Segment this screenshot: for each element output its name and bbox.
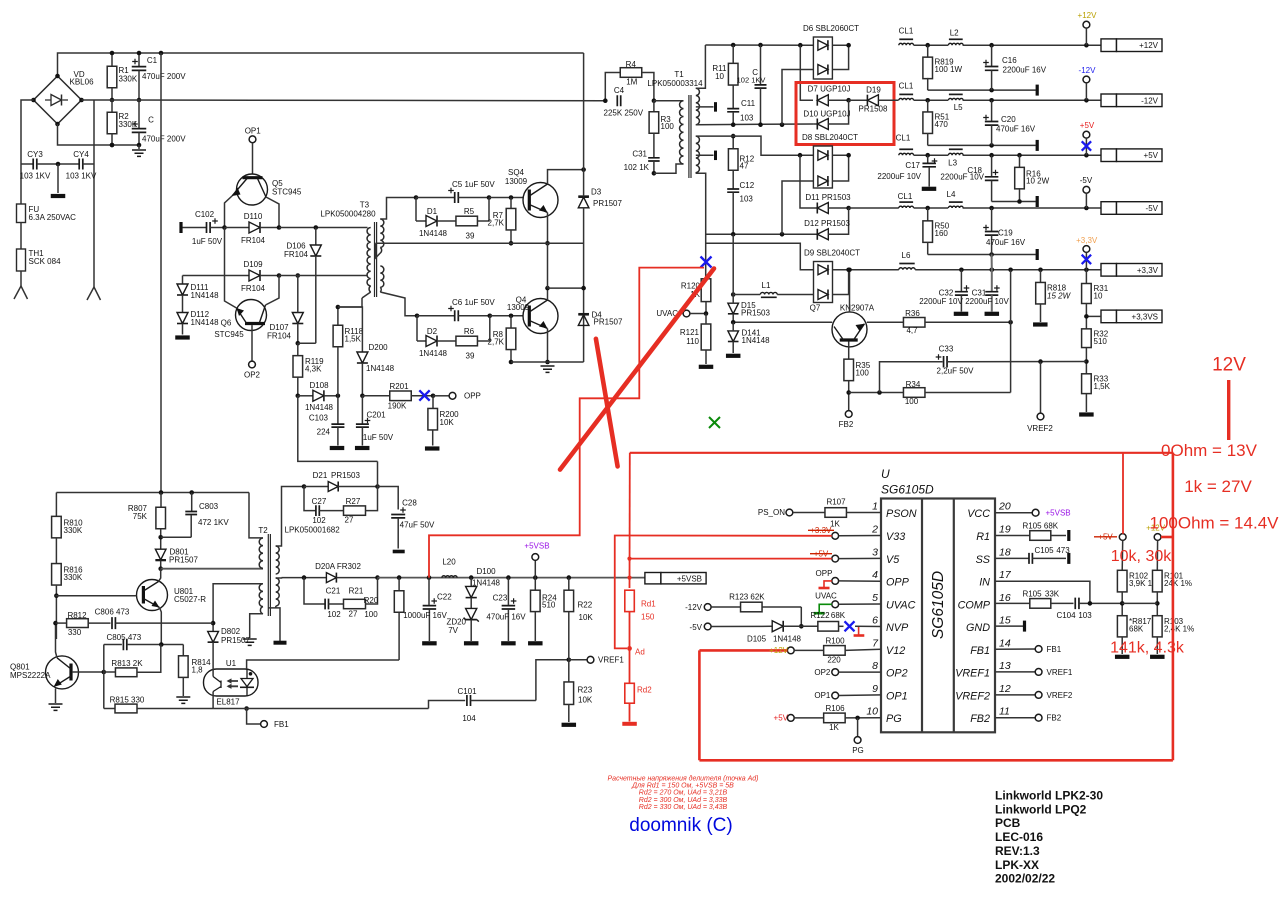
capacitor C5 1uF 50V bbox=[414, 195, 419, 200]
svg-text:Q7: Q7 bbox=[810, 304, 821, 313]
diode D12 PR1503 bbox=[817, 229, 828, 240]
svg-text:2200uF 10V: 2200uF 10V bbox=[877, 172, 921, 181]
resistor R812 330 bbox=[53, 621, 58, 626]
svg-text:100Ohm = 14.4V: 100Ohm = 14.4V bbox=[1149, 514, 1279, 533]
svg-text:C27: C27 bbox=[312, 497, 327, 506]
wire R123 drop bbox=[800, 607, 802, 626]
svg-text:+5VSB: +5VSB bbox=[1046, 509, 1071, 518]
ground bar bbox=[393, 550, 405, 554]
svg-text:Rd1: Rd1 bbox=[641, 600, 656, 609]
capacitor C32 2200uF 10V bbox=[960, 270, 962, 292]
ground bar bbox=[501, 641, 516, 645]
terminator bar bbox=[1036, 196, 1039, 207]
resistor R36 4,7 bbox=[867, 321, 904, 323]
svg-text:D21: D21 bbox=[313, 471, 328, 480]
svg-text:1N4148: 1N4148 bbox=[191, 318, 220, 327]
svg-text:13009: 13009 bbox=[505, 177, 528, 186]
svg-text:470uF 16V: 470uF 16V bbox=[986, 238, 1026, 247]
svg-text:FB2: FB2 bbox=[970, 713, 990, 725]
svg-text:SCK 084: SCK 084 bbox=[29, 257, 62, 266]
wire D7 feed riser bbox=[800, 45, 813, 100]
blue X mark bbox=[419, 390, 429, 400]
wire +5VSB rail bbox=[429, 577, 645, 579]
svg-text:100: 100 bbox=[856, 369, 870, 378]
svg-text:141k, 4.3k: 141k, 4.3k bbox=[1110, 640, 1185, 657]
terminal FB1 bbox=[247, 709, 261, 725]
svg-text:39: 39 bbox=[466, 232, 475, 241]
ground bar bbox=[1079, 412, 1094, 416]
svg-text:9: 9 bbox=[872, 683, 878, 695]
wire T2 aux top to D21 bbox=[276, 487, 304, 547]
svg-text:33K: 33K bbox=[1045, 590, 1060, 599]
svg-text:150: 150 bbox=[641, 613, 655, 622]
inductor L1 bbox=[731, 292, 736, 297]
terminator bar bbox=[1067, 530, 1070, 541]
ground bbox=[176, 697, 190, 703]
wire top secondary rail y45 bbox=[705, 44, 813, 46]
svg-text:1N4148: 1N4148 bbox=[305, 403, 334, 412]
wire D6 lower feed riser bbox=[782, 70, 813, 125]
terminal +5VSB standby bbox=[534, 560, 536, 577]
diode D801 PR1507 bbox=[155, 549, 166, 560]
terminal +5V with blue X bbox=[1083, 131, 1090, 138]
svg-text:PCB: PCB bbox=[995, 816, 1021, 830]
svg-text:330: 330 bbox=[68, 628, 82, 637]
svg-text:+5V: +5V bbox=[774, 714, 789, 723]
svg-text:C4: C4 bbox=[614, 86, 625, 95]
terminal OP1 bbox=[249, 136, 256, 143]
svg-text:68K: 68K bbox=[1129, 625, 1144, 634]
svg-text:LPK-XX: LPK-XX bbox=[995, 858, 1039, 872]
wire to T1 primary bbox=[654, 100, 684, 102]
svg-text:C16: C16 bbox=[1002, 56, 1017, 65]
svg-text:C22: C22 bbox=[437, 593, 452, 602]
wire C31 to T1 primary bottom bbox=[654, 164, 684, 173]
capacitor C28 47uF 50V bbox=[391, 515, 405, 518]
resistor R2 330K bbox=[111, 100, 113, 113]
diode D108 1N4148 bbox=[298, 395, 313, 397]
ground bar bbox=[562, 723, 577, 727]
svg-text:R21: R21 bbox=[349, 587, 364, 596]
svg-text:VREF2: VREF2 bbox=[1047, 691, 1073, 700]
wire T1 sec2 top rail y136 bbox=[696, 136, 814, 155]
svg-text:Q6: Q6 bbox=[221, 319, 232, 328]
ground bbox=[138, 145, 140, 149]
svg-text:FR104: FR104 bbox=[241, 284, 266, 293]
capacitor C20 470uF 16V bbox=[991, 100, 993, 121]
svg-text:R121: R121 bbox=[680, 328, 700, 337]
svg-text:100: 100 bbox=[661, 122, 675, 131]
terminal -5V bbox=[1083, 186, 1090, 193]
capacitor C31 2200uF 10V bbox=[991, 270, 993, 292]
wire C12 to D15 riser bbox=[732, 234, 734, 294]
wire Q4 collector bbox=[547, 288, 549, 300]
wire opto LED anode to R20 bbox=[247, 660, 400, 669]
capacitor C17 2200uF 10V bbox=[927, 155, 929, 163]
wire D11 feed riser bbox=[800, 155, 817, 208]
wire T2 aux winding B top bbox=[213, 584, 263, 632]
resistor R16 10 2W bbox=[1019, 155, 1021, 168]
svg-text:C101: C101 bbox=[457, 687, 477, 696]
wire T2 aux2 bottom ground bbox=[269, 608, 281, 641]
wire U801 emitter bbox=[160, 608, 162, 645]
svg-text:PS_ON: PS_ON bbox=[758, 508, 785, 517]
svg-text:510: 510 bbox=[542, 601, 556, 610]
svg-text:PG: PG bbox=[886, 713, 902, 725]
wire bus jog bbox=[429, 701, 466, 709]
wire Q4 emitter bbox=[547, 329, 549, 363]
svg-text:U1: U1 bbox=[226, 659, 237, 668]
svg-text:V5: V5 bbox=[886, 554, 900, 566]
wire bbox=[20, 223, 22, 250]
connector +12V bbox=[1101, 39, 1117, 52]
svg-text:1uF 50V: 1uF 50V bbox=[363, 433, 394, 442]
svg-text:D109: D109 bbox=[243, 260, 263, 269]
svg-text:R20: R20 bbox=[364, 596, 379, 605]
svg-text:D802: D802 bbox=[221, 627, 241, 636]
red branch to +5V divider bbox=[1122, 453, 1124, 534]
svg-text:R812: R812 bbox=[67, 611, 87, 620]
resistor R6 39 bbox=[456, 336, 478, 346]
terminal VREF1 bbox=[567, 658, 572, 663]
svg-text:10K: 10K bbox=[440, 418, 455, 427]
transistor Q4 13009 bbox=[523, 299, 558, 334]
svg-text:SS: SS bbox=[976, 554, 991, 566]
ground bar bbox=[985, 312, 1000, 316]
svg-text:17: 17 bbox=[999, 569, 1012, 581]
svg-text:C5 1uF 50V: C5 1uF 50V bbox=[452, 180, 495, 189]
diode D7 UGP10J bbox=[817, 95, 828, 106]
svg-text:2,7K: 2,7K bbox=[488, 219, 505, 228]
ground bar bbox=[355, 446, 370, 450]
terminal V5 pin3 bbox=[832, 555, 839, 562]
wire COMP node to R101 col bbox=[1122, 602, 1157, 604]
bridge rectifier VD KBL06 bbox=[34, 76, 82, 124]
svg-text:190K: 190K bbox=[388, 402, 407, 411]
svg-text:1N4148: 1N4148 bbox=[419, 349, 448, 358]
terminal VREF2 bbox=[1040, 362, 1042, 413]
rectifier D9 SBL2040CT bbox=[814, 262, 833, 303]
svg-text:1N4148: 1N4148 bbox=[742, 336, 771, 345]
ground bar bbox=[330, 446, 345, 450]
wire D801 to T2 mid bbox=[161, 568, 263, 570]
capacitor C103 224 bbox=[337, 396, 339, 424]
svg-text:R105: R105 bbox=[1022, 590, 1042, 599]
fuse FU 6.3A 250VAC bbox=[17, 204, 26, 223]
diode D109 FR104 bbox=[183, 275, 250, 277]
svg-text:470uF 16V: 470uF 16V bbox=[996, 125, 1036, 134]
svg-text:Для Rd1 = 150 Ом, +5VSB = 5В: Для Rd1 = 150 Ом, +5VSB = 5В bbox=[631, 783, 734, 790]
resistor R118 1,5K bbox=[337, 307, 339, 325]
svg-text:L20: L20 bbox=[442, 558, 456, 567]
svg-text:R5: R5 bbox=[464, 207, 475, 216]
svg-text:PR1507: PR1507 bbox=[594, 318, 623, 327]
capacitor C23 470uF 16V bbox=[507, 578, 509, 605]
wire D9 outputs merge bbox=[833, 270, 849, 295]
wire Q801 base bbox=[72, 671, 104, 673]
svg-text:16: 16 bbox=[999, 592, 1011, 604]
svg-text:4: 4 bbox=[872, 569, 878, 581]
svg-text:L3: L3 bbox=[948, 159, 957, 168]
red mod wire path A (+5VSB tap to 3.3V sense) bbox=[429, 268, 704, 578]
capacitor C16 2200uF 16V bbox=[991, 45, 993, 66]
resistor R21 27 bbox=[329, 603, 344, 605]
wire HV+ drop to standby bbox=[160, 53, 162, 493]
wire Q7 emitter to 3.3 rail bbox=[849, 270, 851, 312]
svg-text:13009: 13009 bbox=[507, 303, 530, 312]
red stub NVP bbox=[858, 627, 860, 635]
resistor R32 510 bbox=[1082, 329, 1092, 348]
svg-text:D108: D108 bbox=[309, 381, 329, 390]
svg-text:Linkworld LPK2-30: Linkworld LPK2-30 bbox=[995, 789, 1103, 803]
node Ad bbox=[627, 646, 632, 651]
svg-text:1K: 1K bbox=[830, 520, 840, 529]
svg-text:R36: R36 bbox=[905, 309, 920, 318]
red crossout X bbox=[596, 339, 618, 467]
svg-text:103 1KV: 103 1KV bbox=[66, 172, 97, 181]
svg-text:D10 UGP10J: D10 UGP10J bbox=[803, 110, 850, 119]
capacitor C102 1uF 50V bbox=[179, 222, 182, 233]
capacitor C22 1000uF 16V bbox=[428, 578, 430, 605]
wire feedback bus bbox=[244, 706, 249, 711]
capacitor C806 473 bbox=[112, 617, 115, 629]
wire IN pin17 bbox=[995, 581, 1090, 603]
svg-text:62K: 62K bbox=[750, 593, 765, 602]
svg-text:330K: 330K bbox=[119, 75, 138, 84]
resistor R7 2,7K bbox=[510, 198, 512, 209]
svg-text:Расчетные напряжения делителя: Расчетные напряжения делителя (точка Ad) bbox=[608, 775, 759, 783]
svg-text:CL1: CL1 bbox=[896, 134, 911, 143]
svg-text:D200: D200 bbox=[369, 343, 389, 352]
svg-text:R23: R23 bbox=[578, 686, 593, 695]
wire emitter rail upper bbox=[376, 242, 584, 244]
terminator bar bbox=[1067, 553, 1070, 564]
svg-text:L6: L6 bbox=[902, 251, 911, 260]
wire to SQ4 base bbox=[489, 197, 523, 199]
svg-text:1M: 1M bbox=[626, 78, 637, 87]
svg-text:103 1KV: 103 1KV bbox=[20, 172, 51, 181]
svg-text:1N4148: 1N4148 bbox=[419, 229, 448, 238]
diode D19 PR1508 bbox=[849, 99, 868, 101]
ground bar bbox=[175, 335, 190, 339]
capacitor C12 103 bbox=[727, 189, 739, 192]
svg-text:-5V: -5V bbox=[1080, 176, 1093, 185]
IC U SG6105D block bbox=[881, 499, 995, 733]
wire T3 primary return bbox=[338, 298, 362, 307]
wire standby out rail bbox=[378, 577, 430, 579]
svg-text:1k = 27V: 1k = 27V bbox=[1184, 477, 1252, 496]
svg-text:Rd2 = 330 Ом, UAd = 3,43В: Rd2 = 330 Ом, UAd = 3,43В bbox=[639, 804, 728, 811]
wire R36 node riser bbox=[1010, 270, 1012, 323]
wire T3 primary bottom jog bbox=[362, 292, 371, 298]
resistor R31 10 bbox=[1082, 284, 1092, 304]
svg-text:470uF 200V: 470uF 200V bbox=[142, 72, 186, 81]
svg-text:COMP: COMP bbox=[958, 600, 991, 612]
svg-text:6.3A 250VAC: 6.3A 250VAC bbox=[29, 213, 77, 222]
svg-text:2200uF 10V: 2200uF 10V bbox=[965, 297, 1009, 306]
svg-text:FB1: FB1 bbox=[274, 720, 289, 729]
wire drive lower to T3 bbox=[279, 275, 368, 277]
ground bbox=[541, 366, 555, 372]
svg-text:C105: C105 bbox=[1034, 546, 1054, 555]
svg-text:13: 13 bbox=[999, 660, 1011, 672]
svg-text:L1: L1 bbox=[762, 281, 771, 290]
svg-text:GND: GND bbox=[966, 622, 990, 634]
svg-text:24K 1%: 24K 1% bbox=[1164, 579, 1192, 588]
svg-text:C12: C12 bbox=[740, 181, 755, 190]
resistor R815 330 bbox=[104, 708, 115, 710]
red stub OPP bbox=[824, 581, 832, 587]
capacitor C1 470uF 200V bbox=[138, 53, 140, 67]
svg-text:+5VSB: +5VSB bbox=[677, 574, 702, 583]
svg-text:+5V: +5V bbox=[1080, 121, 1095, 130]
svg-text:110: 110 bbox=[686, 337, 699, 346]
wire HV drop through D3 bbox=[583, 53, 585, 196]
resistor R122 68K bbox=[801, 625, 818, 627]
ground bar bbox=[922, 187, 937, 191]
svg-text:OP2: OP2 bbox=[886, 668, 908, 680]
node D106-D107 bbox=[296, 341, 301, 346]
svg-text:VREF2: VREF2 bbox=[1027, 424, 1053, 433]
svg-text:472 1KV: 472 1KV bbox=[198, 518, 229, 527]
svg-text:KN2907A: KN2907A bbox=[840, 304, 875, 313]
svg-text:2200uF 10V: 2200uF 10V bbox=[940, 173, 984, 182]
svg-text:R1: R1 bbox=[976, 531, 990, 543]
svg-text:T2: T2 bbox=[258, 526, 268, 535]
svg-text:-12V: -12V bbox=[685, 603, 703, 612]
svg-text:T3: T3 bbox=[360, 201, 370, 210]
capacitor C4 225K 250V bbox=[617, 95, 620, 106]
svg-text:5: 5 bbox=[872, 592, 878, 604]
svg-text:NVP: NVP bbox=[886, 622, 909, 634]
node CY3-CY4 midpoint / chassis ground bbox=[56, 162, 61, 167]
resistor R105 68K bbox=[995, 535, 1030, 537]
wire R819 return bbox=[928, 89, 1036, 91]
terminator bar bbox=[1036, 85, 1039, 96]
diode D11 PR1503 bbox=[817, 203, 828, 214]
svg-text:U: U bbox=[881, 467, 890, 481]
terminal PG bbox=[857, 718, 859, 737]
wire D6 outputs merge bbox=[832, 45, 848, 69]
resistor R33 1,5K bbox=[1082, 374, 1092, 394]
capacitor C6 1uF 50V bbox=[415, 313, 420, 318]
resistor R121 110 bbox=[701, 324, 711, 350]
terminal FB2 pin11 bbox=[995, 717, 1035, 719]
svg-text:IN: IN bbox=[979, 577, 990, 589]
svg-text:47uF 50V: 47uF 50V bbox=[400, 521, 435, 530]
svg-text:10K: 10K bbox=[578, 696, 593, 705]
svg-text:1N4148: 1N4148 bbox=[366, 364, 395, 373]
transistor U801 C5027-R bbox=[137, 580, 168, 611]
svg-text:102 1K: 102 1K bbox=[624, 163, 650, 172]
ground bar bbox=[726, 354, 741, 358]
capacitor C27 102 bbox=[304, 487, 316, 511]
ground bar bbox=[464, 641, 479, 645]
wire AC line 2 bbox=[93, 100, 95, 287]
resistor R23 10K bbox=[568, 660, 570, 682]
svg-text:PR1507: PR1507 bbox=[221, 636, 250, 645]
svg-text:D19: D19 bbox=[866, 86, 881, 95]
capacitor C21 102 bbox=[304, 578, 325, 604]
svg-text:PR1507: PR1507 bbox=[169, 556, 198, 565]
svg-text:D6 SBL2060CT: D6 SBL2060CT bbox=[803, 24, 859, 33]
svg-text:C11: C11 bbox=[741, 99, 756, 108]
svg-text:6: 6 bbox=[872, 615, 878, 627]
diode D105 1N4148 bbox=[711, 625, 772, 627]
svg-text:KBL06: KBL06 bbox=[70, 78, 95, 87]
capacitor C803 472 1KV bbox=[191, 493, 193, 512]
svg-text:V33: V33 bbox=[886, 531, 905, 543]
inductor L5 bbox=[948, 98, 963, 100]
svg-text:doomnik (C): doomnik (C) bbox=[629, 815, 732, 836]
resistor R3 100 bbox=[653, 101, 655, 112]
wire top HV+ rail bbox=[58, 53, 584, 75]
wire to VREF1 node bbox=[536, 660, 569, 701]
wire Q801 collector bbox=[56, 623, 58, 658]
svg-text:C21: C21 bbox=[326, 587, 341, 596]
wire T3 sec upper top bbox=[380, 198, 416, 220]
capacitor C105 473 bbox=[995, 557, 1029, 559]
svg-text:PR1503: PR1503 bbox=[331, 471, 360, 480]
ground bar bbox=[1033, 322, 1048, 326]
svg-text:SG6105D: SG6105D bbox=[881, 483, 934, 497]
ground bbox=[49, 704, 63, 710]
svg-text:C19: C19 bbox=[998, 229, 1013, 238]
inductor L3 bbox=[948, 153, 963, 155]
svg-text:CY4: CY4 bbox=[73, 150, 89, 159]
svg-text:10: 10 bbox=[866, 706, 878, 718]
diode D141 1N4148 bbox=[728, 331, 739, 342]
wire C19 col to 3.3 rail bbox=[991, 255, 993, 270]
svg-text:R106: R106 bbox=[825, 704, 845, 713]
capacitor CY4 103 1KV bbox=[58, 163, 79, 165]
wire SQ4 emitter bbox=[547, 213, 549, 244]
svg-text:1N4148: 1N4148 bbox=[191, 291, 220, 300]
svg-text:L2: L2 bbox=[950, 29, 959, 38]
resistor Rd2 (red) bbox=[629, 648, 631, 683]
transistor Q6 STC945 bbox=[236, 300, 267, 331]
wire +3.3VS tap bbox=[1085, 270, 1087, 284]
svg-text:+5VSB: +5VSB bbox=[524, 542, 549, 551]
resistor R24 510 bbox=[534, 578, 536, 591]
wire bridge negative to ground bbox=[58, 124, 140, 145]
svg-text:Rd2 = 300 Ом, UAd = 3,33В: Rd2 = 300 Ом, UAd = 3,33В bbox=[639, 797, 728, 804]
svg-text:R201: R201 bbox=[389, 382, 409, 391]
wire R34 return riser bbox=[1010, 322, 1012, 392]
diode D21 PR1503 bbox=[302, 484, 307, 489]
capacitor C 102 1KV bbox=[760, 45, 762, 85]
inductor L4 bbox=[948, 206, 963, 208]
capacitor C31 102 1K bbox=[648, 158, 660, 161]
svg-text:C23: C23 bbox=[493, 594, 508, 603]
svg-text:160: 160 bbox=[935, 229, 949, 238]
svg-text:EL817: EL817 bbox=[216, 698, 240, 707]
ground bar bbox=[1115, 655, 1130, 659]
resistor R816 330K bbox=[52, 564, 62, 586]
svg-text:68K: 68K bbox=[1044, 522, 1059, 531]
svg-text:STC945: STC945 bbox=[214, 330, 244, 339]
svg-text:C102: C102 bbox=[195, 210, 215, 219]
svg-text:VREF1: VREF1 bbox=[1047, 668, 1073, 677]
resistor R810 330K bbox=[55, 493, 57, 517]
svg-text:LPK050004280: LPK050004280 bbox=[320, 210, 376, 219]
wire GND pin15 stub bbox=[995, 625, 1023, 627]
wire Q5 emitter bbox=[225, 196, 233, 228]
wire AC line 1 bbox=[21, 100, 34, 204]
terminal VREF1 pin13 bbox=[995, 671, 1035, 673]
svg-text:+3,3V: +3,3V bbox=[1076, 236, 1098, 245]
svg-text:C806 473: C806 473 bbox=[95, 608, 130, 617]
